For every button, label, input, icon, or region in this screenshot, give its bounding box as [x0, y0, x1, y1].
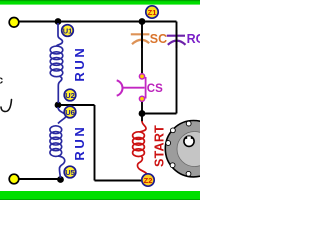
svg-text:RC: RC — [187, 32, 200, 46]
RUN winding 2 wire entry — [58, 107, 66, 124]
svg-text:SC: SC — [150, 32, 167, 46]
svg-text:U1: U1 — [63, 27, 73, 36]
svg-text:START: START — [152, 125, 166, 167]
motor bolt 2 — [171, 128, 176, 133]
CS blade — [145, 77, 147, 99]
motor bolt 4 — [170, 163, 175, 168]
green border top — [0, 0, 200, 5]
CS actuator line — [123, 87, 145, 89]
motor bolt 3 — [166, 141, 171, 146]
junction dot mid-left — [55, 102, 62, 109]
cropped curve glyph (left edge) — [1, 100, 12, 112]
motor body inner — [177, 132, 212, 167]
RUN winding 1 wire entry — [57, 23, 63, 46]
wire: bottom-right L vertical — [94, 105, 96, 181]
wire: mid horizontal to RC — [142, 113, 177, 115]
terminal bottom-left — [9, 174, 19, 184]
wire: bottom-left — [14, 178, 61, 180]
svg-text:RUN: RUN — [72, 46, 87, 82]
START winding coil — [133, 132, 145, 157]
svg-text:Z2: Z2 — [144, 176, 153, 185]
centrifugal switch CS arc — [117, 80, 123, 95]
junction dot bottom-left — [57, 176, 64, 183]
green border bottom — [0, 191, 200, 200]
svg-text:U5: U5 — [65, 168, 75, 177]
motor bolt 1 — [186, 121, 191, 126]
svg-text:c: c — [0, 75, 3, 87]
START winding entry — [140, 121, 147, 132]
wire over RC cap — [176, 30, 178, 48]
junction dot mid SC — [139, 110, 146, 117]
wire: bottom-right horizontal to Z2 — [95, 180, 144, 182]
junction dot top SC — [139, 18, 146, 25]
wire: top main — [14, 21, 177, 23]
junction dot top-left — [55, 18, 62, 25]
wire: mid-left horizontal — [58, 104, 95, 106]
terminal top-left — [9, 18, 19, 28]
svg-text:Z1: Z1 — [148, 8, 157, 17]
svg-text:CS: CS — [147, 83, 163, 95]
wire: SC branch lower — [141, 101, 143, 122]
RUN winding 2 coil — [50, 126, 62, 157]
svg-text:U2: U2 — [65, 91, 75, 100]
wire over SC cap — [141, 30, 143, 48]
badge U2 — [64, 89, 76, 101]
CS contact bottom — [139, 96, 144, 101]
CS contact top — [139, 74, 144, 79]
motor bolt 5 — [186, 171, 191, 176]
badge U5 — [64, 166, 76, 178]
svg-text:U6: U6 — [65, 108, 75, 117]
motor body outer — [165, 121, 221, 177]
wire: RC branch vertical — [176, 22, 178, 114]
SC capacitor plates — [131, 34, 150, 44]
RC capacitor plates — [167, 36, 186, 45]
badge Z1 — [146, 6, 158, 18]
wire: SC branch upper — [141, 22, 143, 75]
badge Z2 — [142, 174, 154, 186]
svg-text:RUN: RUN — [72, 125, 87, 161]
RUN winding 2 wire exit — [58, 156, 65, 178]
badge U1 — [62, 25, 74, 37]
badge U6 — [64, 106, 76, 118]
motor shaft — [184, 136, 194, 146]
RUN winding 1 wire exit — [58, 77, 62, 104]
START winding exit — [137, 156, 147, 174]
RUN winding 1 coil — [50, 46, 63, 77]
